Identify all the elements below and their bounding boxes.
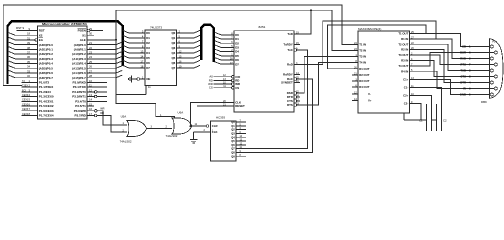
bus entries B1 right to U1 P2 pins	[94, 42, 122, 78]
svg-text:16: 16	[89, 107, 92, 111]
junction ALE	[115, 39, 117, 41]
svg-text:(AD0)P0.0: (AD0)P0.0	[39, 43, 54, 47]
svg-text:T2 OUT: T2 OUT	[398, 42, 408, 46]
svg-text:Q2: Q2	[231, 128, 235, 132]
wire U3 DSR to U4 R1OUT	[300, 57, 352, 94]
svg-text:C1+: C1+	[403, 77, 409, 81]
svg-text:WR: WR	[100, 107, 104, 111]
svg-text:22: 22	[89, 46, 92, 50]
svg-text:CD: CD	[462, 45, 466, 49]
svg-text:ALE: ALE	[80, 38, 86, 42]
svg-text:DSR: DSR	[460, 51, 466, 55]
svg-text:D5: D5	[146, 56, 150, 60]
svg-text:24: 24	[89, 55, 92, 59]
svg-text:T3 IN: T3 IN	[359, 55, 366, 59]
usart U3 8251	[223, 25, 300, 112]
svg-text:P3.3/INT1: P3.3/INT1	[72, 95, 86, 99]
gate U6A 74ALS02	[160, 110, 192, 137]
svg-text:CLR: CLR	[212, 124, 218, 128]
wire border to bus B1	[3, 85, 22, 87]
svg-text:(A8)P2.0: (A8)P2.0	[74, 43, 86, 47]
svg-text:CEX3: CEX3	[22, 108, 29, 111]
svg-text:CEX2: CEX2	[22, 103, 29, 106]
svg-text:P1.4/CEX1: P1.4/CEX1	[39, 99, 54, 103]
wire gate U5A out to gate U6A in	[147, 128, 172, 130]
svg-text:R4 OUT: R4 OUT	[359, 85, 370, 89]
wire U1 PSEN stub	[90, 30, 103, 32]
svg-text:R2 IN: R2 IN	[401, 48, 408, 52]
svg-text:P3.5/T1: P3.5/T1	[75, 104, 86, 108]
svg-text:74ALS02: 74ALS02	[120, 139, 132, 143]
svg-text:D7: D7	[146, 66, 150, 70]
svg-text:T2 IN: T2 IN	[359, 49, 366, 53]
wire U4 T2OUT to DB9 TXD	[416, 44, 490, 70]
wire U4 R1IN to DB9 RXD	[416, 39, 490, 59]
wire U3 TxD riser	[300, 10, 311, 34]
svg-text:RxRDY: RxRDY	[283, 73, 293, 77]
wire U2 LE stub	[145, 85, 147, 94]
svg-text:C1-: C1-	[404, 86, 409, 90]
svg-text:OE: OE	[146, 77, 150, 81]
svg-text:P3.4/T0: P3.4/T0	[75, 99, 86, 103]
svg-text:RD: RD	[100, 111, 104, 115]
svg-text:ECI: ECI	[22, 89, 26, 92]
svg-text:25: 25	[89, 60, 92, 64]
svg-text:U5A: U5A	[121, 115, 127, 119]
svg-text:DB9: DB9	[481, 100, 487, 104]
svg-text:P3.2/INT0: P3.2/INT0	[72, 90, 86, 94]
svg-text:(AD7)P0.7: (AD7)P0.7	[39, 76, 54, 80]
wire U4 R4IN to DB9 RI	[416, 71, 494, 88]
wire W-A border top to U4 T2IN	[3, 5, 352, 85]
svg-text:R1 IN: R1 IN	[401, 37, 408, 41]
svg-text:Q5: Q5	[231, 139, 235, 143]
svg-text:(A15)P2.7: (A15)P2.7	[72, 76, 86, 80]
svg-text:(A10)P2.2: (A10)P2.2	[72, 52, 86, 56]
svg-text:C1: C1	[419, 118, 423, 122]
wire U1 ALE to riser	[94, 39, 116, 41]
svg-text:D1: D1	[146, 36, 150, 40]
svg-text:(AD5)P0.5: (AD5)P0.5	[39, 66, 54, 70]
junction TxD	[310, 9, 312, 11]
svg-text:P1.0/T2: P1.0/T2	[39, 81, 50, 85]
svg-text:GND: GND	[460, 93, 466, 97]
svg-text:(A12)P2.4: (A12)P2.4	[72, 62, 86, 66]
svg-text:DTR: DTR	[460, 81, 466, 85]
svg-text:Q8: Q8	[231, 151, 235, 155]
svg-text:P3.1/TXD: P3.1/TXD	[73, 85, 87, 89]
wire cap mid link	[431, 119, 436, 121]
bus B2 U2 to U3	[201, 25, 213, 62]
capacitor C1	[419, 104, 431, 131]
svg-text:Q0: Q0	[171, 31, 175, 35]
svg-text:T3 OUT: T3 OUT	[398, 53, 408, 57]
wires U1 P3 RXD TXD pins	[94, 82, 107, 87]
svg-text:74LS373: 74LS373	[150, 26, 162, 30]
svg-text:Q0: Q0	[231, 120, 235, 124]
svg-text:P1: P1	[492, 39, 496, 43]
svg-text:Q6: Q6	[171, 61, 175, 65]
wire LE link	[116, 94, 146, 96]
svg-text:CTS: CTS	[460, 75, 466, 79]
wire U3 TxC to counter U7 Q7	[246, 50, 308, 149]
svg-text:8251: 8251	[259, 25, 266, 29]
svg-text:Q3: Q3	[171, 46, 175, 50]
svg-text:(AD4)P0.4: (AD4)P0.4	[39, 62, 54, 66]
svg-text:CS: CS	[209, 86, 213, 90]
svg-text:R2 OUT: R2 OUT	[359, 73, 370, 77]
svg-text:RTS: RTS	[460, 63, 466, 67]
svg-text:Q1: Q1	[231, 124, 235, 128]
bus entries B1 to U2 D pins	[123, 30, 138, 68]
capacitor C2	[436, 104, 447, 131]
bus entries B1 left to U1 P0 pins	[9, 33, 29, 78]
svg-text:Q6: Q6	[231, 143, 235, 147]
svg-text:P3.7/RD: P3.7/RD	[74, 114, 86, 118]
wire U7 CLK input	[194, 131, 211, 133]
wire loop E over U4	[328, 25, 427, 69]
wire U4 C2- to cap	[416, 104, 426, 120]
wire gate U6A out to U7 CLR	[192, 125, 206, 127]
svg-text:(A13)P2.5: (A13)P2.5	[72, 66, 86, 70]
svg-text:T4 OUT: T4 OUT	[398, 64, 408, 68]
wire U3 CLK to gate U6A output node	[191, 103, 235, 126]
connector J1 DB9	[460, 39, 503, 105]
wires U1 P1 pins with net labels	[22, 80, 29, 116]
svg-text:R1 OUT: R1 OUT	[359, 67, 370, 71]
svg-text:P1.7/CEX4: P1.7/CEX4	[39, 114, 54, 118]
svg-text:D3: D3	[146, 46, 150, 50]
svg-text:Q7: Q7	[231, 147, 235, 151]
svg-text:28: 28	[89, 74, 92, 78]
wire U4 R3IN to DB9 CTS	[416, 60, 494, 76]
svg-text:RST: RST	[39, 29, 45, 33]
svg-text:D0: D0	[146, 31, 150, 35]
svg-text:P1.1/T2EX: P1.1/T2EX	[39, 85, 54, 89]
svg-text:27: 27	[89, 69, 92, 73]
svg-text:TxD: TxD	[287, 32, 292, 36]
svg-text:CS: CS	[235, 86, 239, 90]
svg-text:MAX238ACPE(4): MAX238ACPE(4)	[358, 27, 381, 31]
svg-text:12: 12	[89, 88, 92, 92]
svg-text:Q2: Q2	[171, 41, 175, 45]
wire U4 C1+ to DB9 GND	[416, 79, 490, 94]
svg-text:CEX1: CEX1	[22, 99, 29, 102]
svg-text:(AD2)P0.2: (AD2)P0.2	[39, 52, 54, 56]
wire U4 T3OUT to DB9 RTS	[416, 55, 494, 65]
svg-text:P1.2/ECI: P1.2/ECI	[39, 90, 51, 94]
svg-text:(AD1)P0.1: (AD1)P0.1	[39, 47, 54, 51]
svg-text:PSEN: PSEN	[78, 29, 86, 33]
wire U1 RST with net label	[17, 30, 29, 32]
svg-text:C2: C2	[443, 118, 447, 122]
svg-text:CLK: CLK	[212, 130, 218, 134]
svg-text:10: 10	[89, 79, 92, 83]
svg-text:D2: D2	[146, 41, 150, 45]
svg-text:Q1: Q1	[171, 36, 175, 40]
ground GND2 at U7 CLK	[190, 132, 198, 143]
svg-text:T4 IN: T4 IN	[359, 61, 366, 65]
svg-text:C2-: C2-	[404, 102, 409, 106]
svg-text:HC393: HC393	[216, 116, 225, 120]
svg-text:X2: X2	[39, 33, 43, 37]
ground GND1 at U2 OE (sideways)	[128, 76, 137, 83]
svg-text:RxD: RxD	[287, 63, 293, 67]
svg-text:R4 IN: R4 IN	[401, 69, 408, 73]
svg-text:74ALS02: 74ALS02	[166, 134, 178, 138]
svg-text:P1.5/CEX2: P1.5/CEX2	[39, 104, 54, 108]
svg-text:T1 IN: T1 IN	[359, 42, 366, 46]
svg-text:U6A: U6A	[178, 110, 184, 114]
svg-text:V-: V-	[368, 92, 371, 96]
wire U3 RxD loop over U4	[300, 21, 436, 65]
svg-text:RXD: RXD	[460, 57, 466, 61]
svg-text:Q4: Q4	[171, 51, 175, 55]
svg-text:(AD3)P0.3: (AD3)P0.3	[39, 57, 54, 61]
svg-text:21: 21	[89, 41, 92, 45]
svg-text:17: 17	[89, 112, 92, 116]
wire riser top to U4 T3IN	[116, 10, 352, 50]
svg-text:T2EX: T2EX	[22, 85, 28, 88]
svg-text:RST 9: RST 9	[16, 26, 25, 30]
svg-text:(A11)P2.3: (A11)P2.3	[72, 57, 86, 61]
svg-text:RESET: RESET	[235, 104, 245, 108]
svg-text:TxC: TxC	[287, 48, 293, 52]
svg-text:(A9)P2.1: (A9)P2.1	[74, 47, 86, 51]
svg-text:RTS: RTS	[287, 103, 293, 107]
svg-text:15: 15	[89, 102, 92, 106]
wires U1 INT0 INT1 pins	[97, 92, 107, 97]
bus entries U2 Q to bus B2	[184, 30, 200, 68]
svg-text:D7: D7	[235, 62, 239, 66]
svg-text:13: 13	[89, 93, 92, 97]
gate U5A 74ALS02	[120, 115, 147, 144]
svg-text:T1 OUT: T1 OUT	[398, 32, 408, 36]
wire U4 T4OUT to DB9 DSR	[416, 53, 494, 66]
svg-text:Q7: Q7	[171, 66, 175, 70]
svg-text:Q5: Q5	[171, 56, 175, 60]
bus B1 around U1	[8, 21, 123, 84]
microcontroller U1 AT89C51	[27, 22, 97, 119]
svg-text:Q9: Q9	[231, 154, 235, 158]
wire U4 R2IN to DB9 DTR	[416, 50, 490, 83]
svg-text:Q3: Q3	[231, 132, 235, 136]
wire U1 RD to gate U5A input 2	[97, 115, 127, 132]
svg-text:P3.0/RXD: P3.0/RXD	[72, 81, 86, 85]
svg-text:R3 OUT: R3 OUT	[359, 79, 370, 83]
wire U4 T1OUT to DB9 CD	[416, 33, 490, 46]
svg-text:23: 23	[89, 51, 92, 55]
svg-text:C2+: C2+	[403, 94, 409, 98]
svg-text:(A14)P2.6: (A14)P2.6	[72, 71, 86, 75]
svg-text:D6: D6	[146, 61, 150, 65]
svg-text:26: 26	[89, 65, 92, 69]
latch U2 74LS373	[137, 26, 185, 89]
wire U3 RESET	[197, 105, 234, 107]
driver U4 MAX238	[352, 27, 416, 113]
svg-text:TxRDY: TxRDY	[283, 43, 293, 47]
wire U3 RxC to counter U7 Q8	[246, 79, 313, 152]
wire U3 RTS to U4 R2OUT	[300, 63, 352, 105]
bus entries bus B2 to U3 D pins	[215, 32, 228, 64]
svg-text:V+: V+	[368, 99, 372, 103]
svg-text:SYNDET: SYNDET	[281, 81, 293, 85]
wire U1 T0 pin	[94, 100, 107, 102]
wire cap link	[404, 119, 426, 121]
svg-text:D4: D4	[146, 51, 150, 55]
svg-text:TXD: TXD	[460, 69, 466, 73]
wire U4 C2+	[416, 96, 431, 105]
svg-text:(AD6)P0.6: (AD6)P0.6	[39, 71, 54, 75]
svg-text:CEX0: CEX0	[22, 94, 29, 97]
counter U7 74HC393	[206, 116, 246, 161]
svg-text:P1.6/CEX3: P1.6/CEX3	[39, 109, 54, 113]
wire U1 WR to gate U5A input 1	[97, 111, 127, 125]
svg-text:30: 30	[89, 32, 92, 36]
svg-text:CEX4: CEX4	[22, 113, 29, 116]
svg-text:Q4: Q4	[231, 135, 235, 139]
wire ALE riser down to gate U6A	[116, 10, 175, 121]
wire U4 C1-	[416, 87, 441, 104]
wires U3 control net labels	[208, 75, 231, 90]
svg-text:R3 IN: R3 IN	[401, 59, 408, 63]
svg-text:14: 14	[89, 98, 92, 102]
svg-text:X1: X1	[82, 33, 86, 37]
svg-text:RI: RI	[463, 87, 466, 91]
svg-text:P1.3/CEX0: P1.3/CEX0	[39, 95, 54, 99]
svg-text:P3.6/WR: P3.6/WR	[74, 109, 87, 113]
